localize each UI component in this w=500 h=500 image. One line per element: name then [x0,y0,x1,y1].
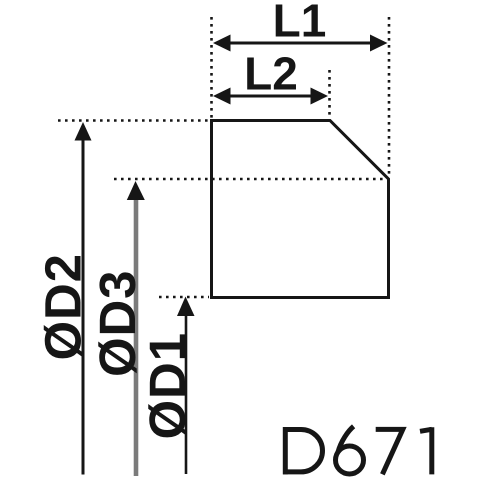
svg-text:L2: L2 [244,47,298,99]
svg-text:ØD3: ØD3 [89,270,146,377]
extension line chamfer start (dotted, x=329.5) [328,70,331,119]
glyph D [283,427,288,474]
extension line right (dotted, x=389) [388,17,391,177]
extension line left (dotted, x=211.5) [210,17,213,119]
dimension arrow L1 (double-headed) [213,35,388,52]
svg-text:ØD2: ØD2 [35,253,92,360]
glyph 7 [376,429,403,474]
svg-text:L1: L1 [273,0,327,46]
part number D671 (hand-drawn geometric glyphs) [283,426,432,474]
datum line D1 level (dotted, y=297) [159,296,209,299]
glyph 1 [420,429,432,431]
dimension arrow D3 (vertical, grey shaft) [127,181,145,476]
datum line D3 level (dotted, y=179) [114,178,386,181]
datum line D2 level (dotted, y=120.5) [58,119,209,122]
part outline (chamfered block profile) [212,121,389,298]
svg-text:ØD1: ØD1 [139,332,196,439]
dimension arrow D1 (vertical, black thin) [177,297,195,475]
dimension arrow D2 (vertical, black) [75,122,92,475]
glyph 6 [336,446,364,474]
dimension arrow L2 (double-headed) [213,88,328,105]
